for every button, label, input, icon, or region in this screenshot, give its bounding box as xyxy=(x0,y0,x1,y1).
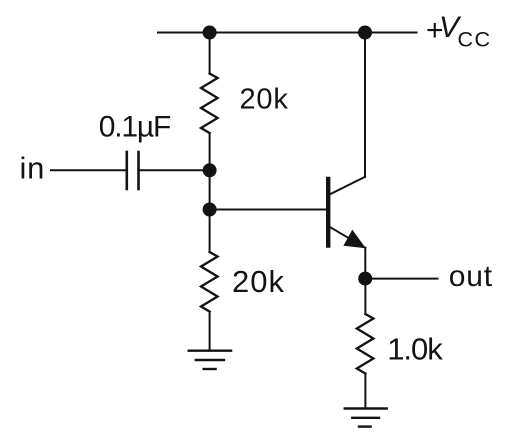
wire between junctions xyxy=(209,170,211,209)
svg-text:20k: 20k xyxy=(240,84,289,116)
node base junction xyxy=(203,203,217,217)
wire out lead xyxy=(365,278,437,280)
transistor Q1 xyxy=(328,177,366,248)
svg-text:0.1µF: 0.1µF xyxy=(99,111,171,144)
capacitor C1 0.1uF plates xyxy=(126,152,129,189)
label +VCC xyxy=(426,11,492,52)
svg-text:out: out xyxy=(449,260,493,293)
resistor R3 1.0k xyxy=(357,314,374,374)
node top-left junction xyxy=(203,26,217,40)
node top-right junction xyxy=(358,26,372,40)
wire capacitor to node xyxy=(140,169,210,171)
resistor R2 20k (lower) xyxy=(201,252,218,312)
wire top supply rail xyxy=(158,32,417,34)
wire down to R2 xyxy=(209,210,211,253)
wire R3 to ground xyxy=(364,374,366,409)
wire R2 to ground xyxy=(209,312,211,351)
wire down to R3 xyxy=(364,279,366,314)
resistor R1 20k (upper) xyxy=(201,74,218,134)
wire base lead xyxy=(210,209,326,211)
wire collector from top rail xyxy=(364,33,366,177)
svg-text:CC: CC xyxy=(458,28,492,52)
node capacitor junction xyxy=(203,163,217,177)
ground (left) xyxy=(189,351,231,369)
wire input lead xyxy=(51,169,126,171)
svg-text:20k: 20k xyxy=(232,264,285,299)
wire from top rail down to R1 xyxy=(209,33,211,74)
ground (right) xyxy=(345,409,387,427)
node out junction xyxy=(358,272,372,286)
wire R1 bottom to input node xyxy=(209,133,211,170)
svg-text:in: in xyxy=(20,151,46,186)
svg-text:1.0k: 1.0k xyxy=(387,331,443,366)
wire emitter to out node xyxy=(364,248,366,279)
